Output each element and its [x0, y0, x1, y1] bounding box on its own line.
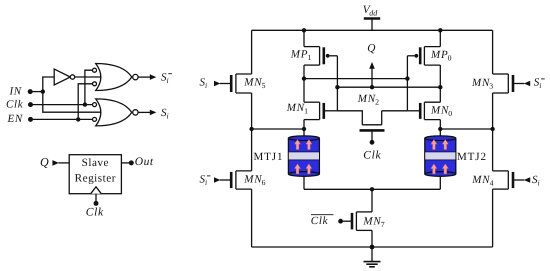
svg-text:MN2: MN2 [357, 93, 380, 107]
wire Clk line [31, 104, 93, 106]
transistor MN1 [304, 102, 337, 119]
svg-text:MN3: MN3 [471, 77, 494, 91]
terminal dot EN [28, 117, 33, 122]
node Si label (MN4 gate) [532, 174, 540, 188]
transistor MN3 [493, 74, 525, 93]
arrowhead MN3 gate input [524, 81, 530, 87]
wire MTJ bottom rail [304, 188, 440, 190]
svg-text:MN7: MN7 [362, 215, 385, 229]
svg-text:Si: Si [534, 77, 542, 91]
svg-text:Si: Si [532, 174, 540, 188]
clock triangle on register [91, 187, 102, 194]
node Si label (bottom output) [161, 107, 169, 121]
output bubble G1 [133, 74, 138, 79]
wire MP1 gate vertical [336, 56, 338, 111]
wire EN line [31, 118, 93, 120]
svg-text:MN0: MN0 [430, 104, 453, 118]
slave register text [75, 157, 116, 184]
wire Q to register [58, 162, 69, 164]
arrowhead node Q [369, 62, 375, 69]
junction dot top rail right [438, 28, 442, 32]
svg-text:MTJ2: MTJ2 [457, 151, 487, 163]
junction dot rail A left [302, 76, 306, 80]
wire G2 output [138, 111, 150, 113]
arrowhead MN6 gate input [214, 177, 220, 183]
label MN1 [286, 102, 309, 116]
junction dot mid right inner [438, 127, 442, 131]
node IN label [9, 86, 22, 98]
wire MN7 source stem [371, 230, 373, 247]
terminal dot MN7 gate [338, 219, 343, 224]
wire node Q stem [371, 68, 373, 88]
label MTJ2 [457, 151, 487, 163]
terminal dot register Clk [94, 201, 99, 206]
wire Clk up to top gate first input [85, 70, 93, 104]
svg-text:Register: Register [75, 173, 116, 185]
svg-text:Clk: Clk [363, 150, 381, 162]
ground [364, 247, 381, 267]
wire MP0 gate vertical [406, 56, 408, 111]
label MN5 [243, 77, 266, 91]
wire right inner branch [439, 30, 441, 136]
node Si label (MN5 gate) [200, 76, 208, 90]
junction dot IN [41, 89, 45, 93]
wire top rail [252, 29, 493, 31]
junction dot rail B mid [370, 85, 374, 89]
wire Vdd stub [371, 19, 373, 31]
label MN7 [362, 215, 385, 229]
arrowhead G2 output [150, 110, 157, 116]
wire cross rail B [337, 86, 440, 88]
junction dot rail B right [438, 85, 442, 89]
svg-text:Clk: Clk [6, 98, 24, 110]
junction dot EN [76, 117, 80, 121]
svg-text:MN4: MN4 [471, 174, 494, 188]
label MN3 [471, 77, 494, 91]
label MP1 [290, 49, 312, 63]
node Q label [367, 42, 375, 54]
junction dot mid left inner [302, 127, 306, 131]
wire MTJ1 bottom stub [303, 177, 305, 190]
transistor MN5 [220, 74, 252, 93]
svg-text:Si: Si [161, 71, 169, 85]
node Clk label [6, 98, 24, 110]
transistor MP0 [407, 47, 440, 66]
wire MTJ2 bottom stub [439, 177, 441, 190]
inverter U1 [54, 69, 75, 85]
svg-text:EN: EN [7, 113, 23, 125]
output bubble G2 [133, 110, 138, 115]
arrowhead Q into register [52, 160, 59, 166]
wire G1 output [138, 76, 150, 78]
junction dot rail B left [335, 85, 339, 89]
input bubble G2 pin3 [93, 117, 97, 121]
wire IN junction down to bottom gate middle input [43, 92, 101, 113]
svg-text:Slave: Slave [82, 157, 109, 169]
node Clk-bar label (MN7 gate) [311, 215, 334, 227]
svg-text:MP1: MP1 [290, 49, 312, 63]
node Out label [135, 156, 154, 168]
svg-text:Si: Si [200, 76, 208, 90]
input bubble G1 pin3 [93, 82, 97, 86]
wire right outer branch [492, 30, 494, 247]
label MN4 [471, 174, 494, 188]
wire register to Out [121, 162, 131, 164]
transistor MP1 [304, 47, 337, 66]
arrowhead MN5 gate input [214, 81, 220, 87]
svg-text:Out: Out [135, 156, 154, 168]
label MN6 [243, 173, 266, 187]
label MN0 [430, 104, 453, 118]
svg-text:Q: Q [40, 155, 49, 169]
gate G2 (bottom NOR-style gate) [96, 99, 132, 126]
junction dot bottom rail [370, 245, 375, 250]
MTJ2 device [425, 136, 456, 176]
label MP0 [430, 49, 452, 63]
node Vdd label [363, 4, 379, 17]
power symbol Vdd bar [364, 17, 380, 20]
svg-text:Si: Si [161, 107, 169, 121]
wire IN to junction [30, 91, 43, 93]
wire inverter output to top gate middle input [75, 76, 101, 78]
svg-text:MN6: MN6 [243, 173, 266, 187]
arrowhead MN4 gate input [524, 177, 530, 183]
junction dot rail A right [405, 76, 409, 80]
label MN2 [357, 93, 380, 107]
node Si-bar label (top output) [161, 71, 172, 85]
svg-text:MTJ1: MTJ1 [254, 151, 284, 163]
svg-text:Q: Q [367, 42, 375, 54]
node Clk label (MN2 gate) [363, 150, 381, 162]
input bubble G1 pin1 [93, 68, 97, 72]
transistor MN4 [493, 171, 525, 189]
wire left outer branch [251, 30, 253, 247]
svg-text:MP0: MP0 [430, 49, 452, 63]
wire register clock stub [95, 194, 97, 204]
arrowhead G1 output [150, 74, 157, 80]
terminal dot MN2 gate [370, 140, 375, 145]
transistor MN7 [341, 212, 372, 231]
gate G1 (top NOR-style gate) [96, 64, 132, 91]
terminal dot Clk [28, 102, 33, 107]
wire left inner branch [303, 30, 305, 136]
wire cross rail A [304, 78, 407, 80]
junction dot mid right outer [490, 127, 494, 131]
node Si-bar label (MN6 gate) [200, 174, 211, 188]
junction dot mid left outer [249, 127, 253, 131]
svg-text:MN5: MN5 [243, 77, 266, 91]
junction dot MTJ rail [370, 187, 374, 191]
wire MN7 drain stem [371, 189, 373, 212]
svg-text:Si: Si [200, 174, 208, 188]
wire IN junction up to inverter input [43, 77, 54, 92]
wire mid link left [252, 128, 304, 130]
svg-text:Clk: Clk [86, 207, 104, 219]
wire mid link right [440, 128, 492, 130]
slave register box [69, 155, 121, 194]
transistor MN2 [337, 111, 407, 143]
svg-text:IN: IN [9, 86, 22, 98]
svg-text:Vdd: Vdd [363, 4, 379, 17]
transistor MN6 [220, 171, 252, 189]
node Q label (register input) [40, 155, 49, 169]
label MTJ1 [254, 151, 284, 163]
svg-text:Clk: Clk [311, 215, 329, 227]
wire bottom rail [252, 246, 493, 248]
node EN label [7, 113, 23, 125]
node Clk label (register) [86, 207, 104, 219]
junction dot top rail left [302, 28, 306, 32]
wire EN up to top gate third input [78, 84, 92, 120]
transistor MN0 [407, 102, 440, 119]
terminal dot IN [28, 89, 33, 94]
svg-text:MN1: MN1 [286, 102, 309, 116]
junction dot Clk [83, 102, 87, 106]
input bubble G2 pin1 [93, 103, 97, 107]
terminal dot Out [129, 160, 134, 165]
MTJ1 device [288, 136, 319, 176]
node Si-bar label (MN3 gate) [534, 77, 545, 91]
